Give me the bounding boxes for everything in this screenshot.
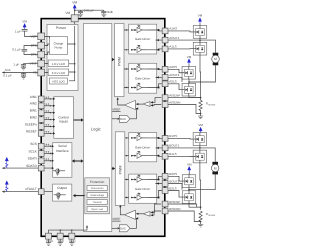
pin AOUT1 bbox=[162, 36, 179, 43]
protection open load bbox=[87, 207, 107, 212]
net VM B1 bbox=[198, 123, 203, 133]
svg-text:AOUT1: AOUT1 bbox=[169, 36, 179, 40]
protection undervoltage bbox=[87, 193, 107, 198]
wire logic to pwm B arrow bbox=[112, 167, 115, 170]
pin RESET bbox=[26, 129, 55, 136]
svg-text:Open Load: Open Load bbox=[91, 208, 104, 211]
svg-text:B1LS: B1LS bbox=[169, 152, 176, 156]
wire pwm to gate drivers B bbox=[125, 137, 129, 198]
svg-text:VINT: VINT bbox=[30, 62, 37, 66]
svg-text:BOUT1: BOUT1 bbox=[169, 144, 179, 148]
wire BISENN to sense amp bbox=[150, 211, 161, 216]
regulator VGS LDO bbox=[49, 78, 67, 84]
wire ground rail internal bbox=[49, 225, 89, 233]
transistor A1 low bbox=[168, 42, 207, 55]
output block bbox=[53, 184, 72, 201]
motor B bbox=[211, 162, 219, 175]
svg-text:B1HS: B1HS bbox=[169, 134, 177, 138]
svg-text:SCS: SCS bbox=[30, 142, 37, 146]
pin nFAULT bbox=[2, 187, 53, 195]
svg-text:AIN2: AIN2 bbox=[30, 102, 37, 106]
svg-text:PWM: PWM bbox=[118, 57, 122, 66]
svg-text:VM: VM bbox=[22, 19, 27, 23]
svg-text:DAC: DAC bbox=[120, 117, 126, 121]
svg-text:SLEEPn: SLEEPn bbox=[25, 122, 37, 126]
svg-text:5mA: 5mA bbox=[5, 69, 11, 72]
svg-text:AOUT2: AOUT2 bbox=[169, 73, 179, 77]
motor A bbox=[212, 53, 220, 66]
svg-text:PWM: PWM bbox=[118, 166, 122, 175]
sense amp B bbox=[136, 211, 150, 216]
resistor Rsense A bbox=[199, 100, 216, 110]
resistor pullup SDATO bbox=[5, 157, 8, 168]
pin VCP bbox=[30, 33, 44, 40]
net VM supply top bbox=[72, 0, 77, 14]
wire AOUT2 node bbox=[168, 77, 190, 83]
wire pwm to gate drivers A bbox=[124, 29, 129, 88]
svg-text:1 µF: 1 µF bbox=[15, 29, 21, 33]
svg-text:VREF: VREF bbox=[112, 217, 120, 221]
wire AISENP to sense amp bbox=[150, 98, 161, 104]
svg-text:Bulk: Bulk bbox=[107, 10, 113, 14]
wire protection to output arrow bbox=[73, 194, 85, 197]
gate driver block A1 bbox=[129, 24, 157, 54]
pin SDATI bbox=[28, 157, 54, 164]
wire gate driver outputs A2 bbox=[147, 68, 162, 88]
pin B1LS bbox=[162, 152, 176, 159]
pin nSLEEP bbox=[25, 122, 55, 129]
transistor A2 high bbox=[168, 66, 195, 79]
protection thermal bbox=[87, 200, 107, 205]
capacitor 0.1uF CP1-CP2 bbox=[12, 46, 38, 55]
wire VM internal bus bbox=[68, 26, 76, 81]
svg-text:GND: GND bbox=[58, 239, 64, 243]
wire gate driver outputs A1 bbox=[147, 29, 162, 51]
svg-text:SDATI: SDATI bbox=[28, 157, 37, 161]
ground Rsense A bbox=[198, 116, 203, 119]
svg-text:0.01 µF: 0.01 µF bbox=[84, 9, 94, 13]
svg-text:3.3-V LDO: 3.3-V LDO bbox=[52, 71, 66, 75]
wire serial to logic double arrow bbox=[72, 159, 84, 162]
svg-text:SCLK: SCLK bbox=[28, 149, 37, 153]
IC body U1 bbox=[41, 19, 165, 237]
dac B bbox=[112, 217, 138, 232]
svg-text:SDATO: SDATO bbox=[26, 164, 37, 168]
pin BISENN bbox=[162, 207, 180, 214]
svg-text:Output: Output bbox=[57, 186, 67, 190]
svg-text:V GS LDO: V GS LDO bbox=[52, 79, 65, 83]
pin A2LS bbox=[162, 80, 176, 87]
pin A1HS bbox=[162, 27, 177, 34]
svg-text:Gate Driver: Gate Driver bbox=[135, 187, 150, 191]
pin GND1 bbox=[57, 233, 64, 245]
svg-text:VCP: VCP bbox=[30, 35, 37, 39]
svg-text:BISENN: BISENN bbox=[169, 207, 180, 211]
pin B2LS bbox=[162, 186, 176, 193]
svg-text:B2HS: B2HS bbox=[169, 172, 177, 176]
resistor Rsense B bbox=[199, 211, 216, 221]
sense amp A bbox=[136, 102, 150, 107]
pin BIN1 bbox=[30, 109, 55, 116]
dac A bbox=[112, 108, 138, 123]
pin AIN1 bbox=[30, 95, 55, 102]
comparator B bbox=[119, 205, 135, 220]
pin VINT bbox=[30, 60, 45, 67]
wire BISENP to sense amp bbox=[150, 204, 161, 214]
svg-text:1.8-V LDO: 1.8-V LDO bbox=[52, 62, 66, 66]
regulator 3.3-V LDO bbox=[48, 69, 68, 76]
transistor B1 high bbox=[168, 133, 206, 146]
svg-text:Gate Driver: Gate Driver bbox=[135, 37, 150, 41]
wire BOUT2 node bbox=[168, 184, 190, 193]
svg-text:BIN2: BIN2 bbox=[30, 116, 37, 120]
pin GND2 bbox=[69, 233, 76, 245]
svg-text:BOUT2: BOUT2 bbox=[169, 179, 179, 183]
pwm block A bbox=[115, 24, 125, 97]
pin AIN2 bbox=[30, 102, 55, 109]
svg-text:Serial: Serial bbox=[58, 144, 67, 148]
svg-text:SENSE: SENSE bbox=[208, 214, 216, 217]
wire AISENP external bbox=[168, 97, 200, 99]
svg-text:AIN1: AIN1 bbox=[30, 95, 37, 99]
transistor A1 high bbox=[168, 26, 207, 39]
transistor B2 high bbox=[168, 175, 196, 188]
svg-text:Power: Power bbox=[56, 26, 67, 30]
svg-text:BISENP: BISENP bbox=[169, 200, 180, 204]
svg-text:Protection: Protection bbox=[90, 180, 105, 184]
wire A1 low to sense node bbox=[200, 55, 202, 100]
wire B1 low to sense node bbox=[200, 163, 202, 210]
capacitor 1uF VCP to VM bbox=[15, 19, 38, 36]
regulator 1.8-V LDO bbox=[48, 60, 68, 67]
transistor B1 low bbox=[168, 150, 206, 163]
pin CP2 bbox=[31, 42, 45, 49]
pin SCS bbox=[30, 142, 54, 149]
svg-text:GND: GND bbox=[69, 239, 75, 243]
svg-text:A2LS: A2LS bbox=[169, 80, 176, 84]
wire AISENN to sense amp bbox=[150, 104, 161, 106]
svg-text:nFAULT: nFAULT bbox=[25, 187, 37, 191]
net VM B2 bbox=[187, 162, 192, 175]
wire pins to power block bbox=[45, 37, 50, 73]
svg-text:A1LS: A1LS bbox=[169, 45, 176, 49]
comparator A bbox=[117, 97, 136, 109]
svg-text:Gate Driver: Gate Driver bbox=[135, 76, 150, 80]
wire gate driver outputs B2 bbox=[147, 176, 162, 198]
svg-text:Gate Driver: Gate Driver bbox=[135, 145, 150, 149]
protection block bbox=[85, 178, 110, 214]
svg-text:VM: VM bbox=[72, 0, 77, 4]
wire logic to pwm A arrow bbox=[112, 58, 115, 61]
svg-text:A1HS: A1HS bbox=[169, 27, 177, 31]
wire A2 low to sense node bbox=[189, 96, 201, 98]
svg-text:Inputs: Inputs bbox=[59, 120, 68, 124]
wire VM rail to bulk caps bbox=[75, 9, 104, 11]
svg-text:V5: V5 bbox=[33, 71, 37, 75]
pin PPAD bbox=[46, 233, 54, 245]
svg-text:CP2: CP2 bbox=[31, 44, 37, 48]
pin BIN2 bbox=[30, 116, 55, 123]
svg-text:PPAD: PPAD bbox=[46, 239, 53, 243]
svg-text:Logic: Logic bbox=[91, 126, 101, 131]
svg-text:VM: VM bbox=[198, 14, 203, 18]
svg-text:VM: VM bbox=[198, 123, 203, 127]
wire motor B to BOUT2 node bbox=[189, 174, 215, 190]
svg-text:Control: Control bbox=[58, 115, 69, 119]
serial interface block bbox=[53, 143, 72, 178]
pin BOUT1 bbox=[162, 144, 179, 151]
control inputs block bbox=[54, 97, 74, 139]
svg-text:VREF: VREF bbox=[112, 107, 120, 111]
wire AISENN external bbox=[168, 105, 201, 117]
svg-text:BIN1: BIN1 bbox=[30, 109, 37, 113]
wire V5 external bbox=[2, 69, 39, 74]
wire gate driver outputs B1 bbox=[147, 137, 162, 157]
ground Rsense B bbox=[198, 224, 203, 227]
gate driver block B1 bbox=[129, 133, 157, 162]
wire control inputs to logic arrow bbox=[74, 118, 84, 121]
pin AISENN bbox=[162, 100, 180, 107]
capacitor bulk bbox=[101, 10, 113, 17]
svg-text:VM: VM bbox=[187, 55, 192, 59]
transistor B2 low bbox=[168, 191, 196, 204]
pin AISENP bbox=[162, 93, 180, 100]
svg-text:CP1: CP1 bbox=[31, 53, 37, 57]
pin B1HS bbox=[162, 134, 177, 141]
svg-text:1 µF: 1 µF bbox=[13, 63, 19, 67]
pwm block B bbox=[115, 132, 125, 206]
wire BOUT1 node bbox=[168, 145, 215, 162]
svg-text:Thermal: Thermal bbox=[93, 201, 102, 204]
pin BOUT2 bbox=[162, 179, 179, 186]
svg-text:0.1 µF: 0.1 µF bbox=[3, 74, 12, 78]
pin BISENP bbox=[162, 200, 180, 207]
svg-text:Overcurrent: Overcurrent bbox=[91, 187, 104, 190]
pin A1LS bbox=[162, 45, 176, 52]
charge pump block bbox=[49, 37, 67, 55]
pin B2HS bbox=[162, 172, 177, 179]
pin A2HS bbox=[162, 65, 177, 72]
svg-text:AISENN: AISENN bbox=[169, 100, 180, 104]
svg-text:Pump: Pump bbox=[54, 45, 62, 49]
wire AOUT1 node bbox=[168, 38, 215, 53]
wire BISENN external bbox=[168, 211, 201, 224]
pin VM bbox=[65, 11, 78, 26]
svg-text:0.1 µF: 0.1 µF bbox=[12, 48, 21, 52]
capacitor 1uF VINT bbox=[13, 63, 38, 70]
pin SDATO bbox=[2, 164, 54, 171]
svg-text:SENSE: SENSE bbox=[208, 104, 216, 107]
power block bbox=[47, 25, 78, 91]
gate driver block B2 bbox=[129, 174, 157, 203]
svg-text:DAC: DAC bbox=[120, 227, 126, 231]
protection overcurrent bbox=[87, 186, 107, 191]
svg-text:VM: VM bbox=[65, 11, 70, 15]
wire motor A to AOUT2 node bbox=[189, 65, 216, 82]
svg-text:A2HS: A2HS bbox=[169, 65, 177, 69]
svg-text:AISENP: AISENP bbox=[169, 93, 180, 97]
svg-text:RESET: RESET bbox=[26, 129, 37, 133]
svg-text:Undervoltage: Undervoltage bbox=[90, 194, 105, 197]
transistor A2 low bbox=[168, 83, 195, 96]
svg-text:VM: VM bbox=[187, 162, 192, 166]
pin AOUT2 bbox=[162, 73, 179, 80]
capacitor 0.1uF V5 bbox=[3, 73, 26, 80]
gate driver block A2 bbox=[129, 63, 157, 93]
wire BISENP external bbox=[168, 204, 200, 207]
logic block bbox=[84, 24, 112, 232]
capacitor 0.01uF bbox=[78, 9, 94, 17]
pin V5 bbox=[33, 69, 45, 76]
resistor pullup nFAULT bbox=[5, 181, 8, 192]
pin CP1 bbox=[31, 51, 45, 58]
wire B2 low to sense node bbox=[189, 203, 201, 207]
net VM A2 bbox=[187, 55, 192, 67]
net VM A1 bbox=[198, 14, 203, 26]
svg-text:Interface: Interface bbox=[56, 149, 69, 153]
svg-text:B2LS: B2LS bbox=[169, 186, 176, 190]
pin SCLK bbox=[28, 149, 54, 156]
